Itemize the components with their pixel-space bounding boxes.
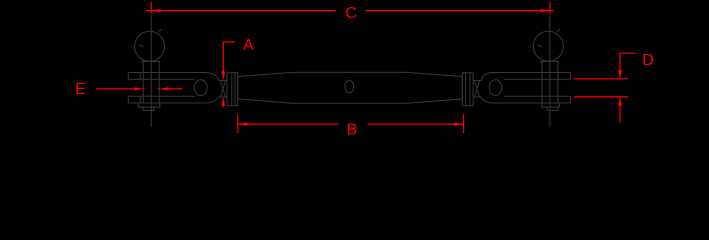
left pin ball head <box>135 29 165 61</box>
left pin centerline <box>150 15 152 128</box>
left pin shaft <box>143 61 159 103</box>
left jaw hole <box>194 80 207 96</box>
right pin ball head <box>533 29 563 61</box>
right jaw base <box>481 73 492 104</box>
dim A bracket and arrows <box>221 42 234 107</box>
turnbuckle body <box>238 72 463 103</box>
right jaw hole <box>489 80 501 96</box>
svg-text:E: E <box>75 81 86 98</box>
left pin cotter <box>143 107 154 110</box>
dim C extension lines <box>150 2 152 13</box>
left stud (threaded) <box>219 81 227 98</box>
dim D bracket and arrows <box>574 53 636 122</box>
svg-text:B: B <box>347 122 358 139</box>
left jaw base <box>207 73 219 104</box>
right lock nut <box>462 73 473 106</box>
right stud (threaded) <box>473 81 481 98</box>
left lock nut <box>227 73 238 106</box>
dim B line <box>238 123 338 125</box>
left pin washer <box>139 103 160 107</box>
right pin shaft <box>542 61 558 103</box>
dim C line <box>146 10 335 12</box>
right pin centerline <box>549 15 551 128</box>
right pin washer <box>542 103 560 107</box>
body center hole <box>345 80 354 92</box>
svg-text:D: D <box>642 52 654 69</box>
svg-text:A: A <box>243 37 254 54</box>
left jaw plates <box>128 73 206 104</box>
right pin cotter <box>547 107 558 110</box>
right jaw plates <box>492 73 571 104</box>
dim B extension lines <box>237 114 239 133</box>
dim E line and arrows <box>96 87 182 90</box>
svg-text:C: C <box>345 5 357 22</box>
